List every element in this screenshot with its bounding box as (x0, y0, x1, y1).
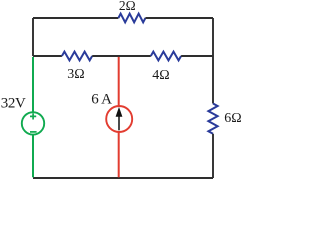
wire middle left segment (33, 55, 62, 57)
resistor R 2ohm (118, 14, 145, 23)
resistor R 4ohm (151, 52, 181, 61)
wire green lower (32, 135, 34, 178)
wire top-right segment (145, 17, 213, 19)
wire right lower (212, 134, 214, 178)
resistor R 3ohm (62, 52, 92, 61)
wire green upper (32, 57, 34, 112)
svg-text:4Ω: 4Ω (152, 68, 169, 83)
svg-text:32V: 32V (1, 96, 26, 112)
wire middle right segment (181, 55, 213, 57)
resistor R 6ohm (208, 104, 217, 134)
wire red lower (118, 132, 120, 178)
wire left upper black (32, 18, 34, 56)
svg-text:6Ω: 6Ω (224, 111, 241, 126)
wire red upper (118, 57, 120, 106)
svg-text:3Ω: 3Ω (67, 67, 84, 82)
voltage source minus sign (30, 131, 37, 133)
voltage source plus sign (30, 113, 36, 119)
current source I1 6A circle (106, 106, 132, 132)
svg-text:6 A: 6 A (91, 92, 112, 108)
wire bottom (33, 177, 213, 179)
wire middle center segment (92, 55, 151, 57)
svg-text:2Ω: 2Ω (119, 0, 136, 13)
current source arrow head (116, 107, 123, 117)
voltage source V1 32V circle (22, 112, 44, 134)
current source arrow shaft (118, 116, 120, 131)
wire top-left segment (33, 17, 118, 19)
wire right upper (212, 18, 214, 104)
